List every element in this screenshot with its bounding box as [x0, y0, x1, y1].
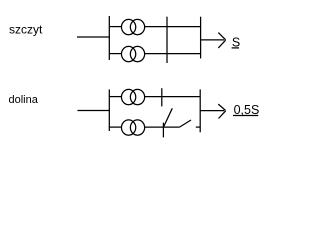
node bus right top — [200, 17, 202, 59]
arrow head bottom — [218, 104, 225, 118]
wire branch D left — [109, 126, 121, 128]
switch blade open — [180, 120, 192, 127]
wire branch A right — [145, 26, 201, 28]
wire input top — [77, 36, 110, 38]
node bus right bottom — [199, 89, 201, 132]
svg-text:0,5S: 0,5S — [234, 103, 260, 117]
transformer T2 — [121, 46, 144, 61]
wire output top — [201, 39, 225, 41]
wire branch B right — [145, 53, 201, 55]
svg-text:szczyt: szczyt — [9, 23, 43, 37]
contact tick branch C — [161, 88, 163, 106]
wire branch B left — [109, 53, 121, 55]
wire branch D middle — [145, 126, 180, 128]
wire branch C left — [109, 96, 121, 98]
underline 0,5S — [233, 115, 258, 117]
contact tick branch D — [162, 123, 164, 138]
wire stub to bus — [196, 126, 200, 128]
switch actuator stroke — [164, 108, 173, 126]
underline S — [232, 47, 239, 49]
wire branch C right — [145, 96, 201, 98]
wire input bottom — [78, 110, 111, 112]
transformer T1 — [121, 19, 144, 34]
svg-text:S: S — [232, 36, 240, 50]
transformer T4 — [121, 120, 144, 135]
node bus middle top — [166, 17, 168, 63]
wire output bottom — [200, 110, 224, 112]
svg-text:dolina: dolina — [9, 94, 39, 106]
wire branch A left — [109, 26, 121, 28]
node bus left top — [108, 16, 110, 60]
arrow head top — [218, 33, 225, 48]
transformer T3 — [121, 89, 144, 104]
node bus left bottom — [108, 89, 110, 131]
